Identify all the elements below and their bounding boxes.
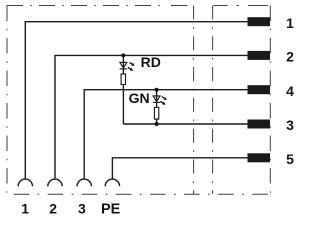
- svg-text:RD: RD: [141, 54, 161, 70]
- svg-text:3: 3: [286, 117, 294, 133]
- svg-text:2: 2: [286, 48, 294, 64]
- svg-text:GN: GN: [129, 90, 150, 106]
- svg-text:4: 4: [286, 83, 294, 99]
- svg-text:5: 5: [286, 151, 294, 167]
- svg-text:2: 2: [49, 201, 57, 217]
- svg-text:1: 1: [21, 201, 29, 217]
- svg-text:PE: PE: [101, 202, 121, 218]
- svg-text:3: 3: [78, 201, 86, 217]
- svg-text:1: 1: [286, 15, 294, 31]
